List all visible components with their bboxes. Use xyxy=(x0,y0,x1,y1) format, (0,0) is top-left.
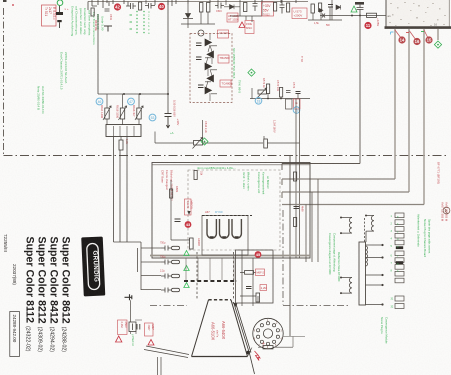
diode D515 xyxy=(230,5,235,10)
capacitor C541 xyxy=(196,43,202,46)
connector legs xyxy=(186,258,234,280)
resistor AD590 xyxy=(190,238,194,249)
red label box TR521 xyxy=(42,5,57,26)
capacitor C522 xyxy=(253,0,258,11)
resistor R562 xyxy=(319,3,322,12)
spark flash xyxy=(255,351,261,361)
pot P601 xyxy=(155,120,277,149)
wire down xyxy=(130,300,132,322)
green diamond marker 2 xyxy=(248,69,255,76)
warning triangle xyxy=(239,22,245,28)
resistor R691 xyxy=(294,172,297,181)
trimmer P573 xyxy=(257,88,267,99)
capacitor C681 xyxy=(175,219,181,222)
green note Netz xyxy=(37,86,46,114)
resistor R512 xyxy=(200,3,203,13)
red label box K572 xyxy=(294,99,301,109)
resistor R520 xyxy=(244,3,247,12)
resistor R720 xyxy=(263,346,273,349)
fold chain line horizontal xyxy=(4,155,450,157)
red label box +33V xyxy=(262,2,274,16)
exit wires bottom xyxy=(158,357,162,375)
resistor R631 xyxy=(119,140,123,150)
yoke lead diagonals xyxy=(144,346,189,358)
core dashed xyxy=(364,218,366,242)
dashed inner region xyxy=(188,170,280,250)
wire feed xyxy=(98,14,168,94)
RC row 2 xyxy=(161,260,180,265)
red label 2,2M xyxy=(118,320,128,335)
green ring marker xyxy=(57,0,63,6)
green note End-Chassis xyxy=(60,52,69,90)
green diamond marker 3 xyxy=(434,41,441,48)
fold chain line bottom middle xyxy=(150,210,350,306)
diode D562 xyxy=(336,5,341,10)
RC row 1 xyxy=(161,246,180,251)
wire xyxy=(181,4,215,28)
resistor R701 xyxy=(245,271,254,275)
test point 19 xyxy=(293,107,300,114)
wire row xyxy=(250,88,310,99)
capacitor C691 xyxy=(294,207,300,209)
wire xyxy=(224,0,262,16)
yoke coil U3 xyxy=(232,219,241,238)
red label box U573 xyxy=(292,8,307,19)
capacitor C542 xyxy=(196,57,202,60)
corner mark xyxy=(3,0,7,2)
red label AT1025 xyxy=(227,13,238,22)
trimmer R616 xyxy=(132,94,143,125)
resistor R692 xyxy=(294,218,297,227)
capacitor C516 xyxy=(215,3,224,9)
capacitor C701 xyxy=(246,287,252,289)
diode chain xyxy=(205,39,217,94)
long line A xyxy=(282,16,360,171)
capacitor C543 xyxy=(198,85,204,88)
transformer taps xyxy=(366,245,383,305)
red label box 5,1k xyxy=(185,199,192,215)
long vertical E xyxy=(289,156,291,336)
CRT funnel xyxy=(192,300,248,357)
test point 16 xyxy=(413,38,420,45)
test point 42 xyxy=(114,3,121,10)
pin stubs xyxy=(394,29,396,179)
pad dash row xyxy=(184,280,237,282)
connector box top xyxy=(106,125,141,137)
capacitor C531 xyxy=(280,0,285,14)
EHT lead diagonals xyxy=(234,302,252,354)
part number box 24288-942.00 xyxy=(10,312,20,357)
transistor T511 xyxy=(198,30,204,36)
wire stubs left strip xyxy=(88,0,176,10)
spark gap symbol xyxy=(443,207,450,214)
arrow up xyxy=(187,211,190,215)
long line C xyxy=(282,192,409,198)
test point 43 xyxy=(185,221,192,228)
test point 15 xyxy=(425,36,432,43)
capacitor C501 xyxy=(105,9,110,11)
resistor R574 xyxy=(280,88,283,98)
resistor R503 xyxy=(139,2,142,10)
capacitor stack C565 xyxy=(355,2,364,5)
diode D561 xyxy=(319,8,324,13)
top edge wire xyxy=(88,1,308,3)
red label TBA xyxy=(218,55,229,63)
wire xyxy=(171,180,190,240)
warning triangle 2 xyxy=(116,336,122,342)
CRT socket xyxy=(253,318,283,348)
resistor R681 xyxy=(170,189,173,198)
capacitor C655 xyxy=(137,324,140,330)
drop verticals xyxy=(306,179,318,262)
dashed box diode ladder xyxy=(190,34,232,103)
wire triple vertical xyxy=(114,137,128,243)
test point 18 xyxy=(255,98,262,105)
line transformer former xyxy=(359,242,366,305)
wire cluster xyxy=(131,320,143,334)
RC row 3 xyxy=(161,274,180,279)
long line B xyxy=(282,179,395,185)
red label TCA xyxy=(220,80,231,87)
warning triangle 3 xyxy=(148,340,154,346)
yoke coil U1 xyxy=(207,219,216,238)
neck dashed sides xyxy=(197,252,234,300)
resistor R517 xyxy=(274,3,277,12)
focus box xyxy=(236,250,274,303)
trimmer R614 xyxy=(100,94,111,125)
convergence board outline xyxy=(152,163,310,259)
wire xyxy=(308,0,342,20)
RC row 4 xyxy=(161,288,180,293)
capacitor cluster xyxy=(126,3,155,9)
T symbol xyxy=(104,26,112,32)
green delta markers xyxy=(184,251,189,288)
transformer coil A xyxy=(341,218,352,234)
trimmer R618 xyxy=(116,94,127,125)
resistor R501 xyxy=(91,8,94,16)
IC module box xyxy=(385,0,451,28)
transformer coil C xyxy=(341,278,352,294)
wires in focus box xyxy=(240,250,258,306)
resistor R682 xyxy=(194,171,197,180)
GRUNDIG logo xyxy=(81,237,105,297)
resistor R513 xyxy=(207,3,210,13)
capacitor C575 xyxy=(286,91,291,93)
red label box 2,2M xyxy=(260,285,267,291)
transformer coil B xyxy=(366,216,374,243)
delay line assembly box xyxy=(202,216,248,256)
green note block (rotated) xyxy=(70,6,104,45)
capacitor C573 xyxy=(296,92,301,94)
resistor R531 xyxy=(287,3,290,12)
feed wire bracket xyxy=(114,242,142,290)
resistor R702 xyxy=(256,293,260,302)
capacitor C616 xyxy=(165,114,172,129)
resistor R561 xyxy=(311,4,314,13)
green labels column xyxy=(242,172,270,195)
row feed stubs xyxy=(141,248,161,290)
red label right xyxy=(145,323,154,336)
test point 47 xyxy=(128,98,135,105)
capacitor C521 xyxy=(56,12,63,22)
red label box MSC xyxy=(245,21,254,34)
red dot xyxy=(12,4,14,6)
yoke coil U2 xyxy=(220,219,229,238)
resistor R573 xyxy=(267,84,270,94)
test point 11 xyxy=(364,22,371,29)
relay box K571 xyxy=(286,99,293,109)
socket leads xyxy=(248,337,306,357)
test point 45 xyxy=(255,251,262,258)
test point 40 xyxy=(158,3,165,10)
red label box focus xyxy=(256,269,265,276)
connector strip xyxy=(395,213,404,309)
wire stubs xyxy=(146,0,252,22)
resistor R565 xyxy=(367,13,377,17)
wire bus vertical xyxy=(167,2,169,114)
wire zigzag xyxy=(206,34,212,101)
test point 46 xyxy=(96,98,103,105)
fold chain line left xyxy=(3,8,5,156)
test point 53 xyxy=(149,114,156,121)
resistor R641 xyxy=(264,139,268,148)
green triangle marker xyxy=(351,6,357,12)
green pin dot grid xyxy=(130,10,151,35)
long line D xyxy=(282,204,424,206)
test point 14 xyxy=(398,36,405,43)
red label box mid xyxy=(218,30,229,38)
board bottom gray bus xyxy=(150,255,310,257)
capacitor C561 xyxy=(328,5,333,8)
diode D511 xyxy=(183,14,193,19)
wire xyxy=(201,12,208,24)
wire top right xyxy=(320,14,386,18)
long vertical pair xyxy=(296,99,300,259)
green diamond marker xyxy=(201,138,208,145)
ground T symbol xyxy=(125,294,133,300)
top edge stubs xyxy=(98,0,296,5)
spark module box xyxy=(129,322,136,332)
